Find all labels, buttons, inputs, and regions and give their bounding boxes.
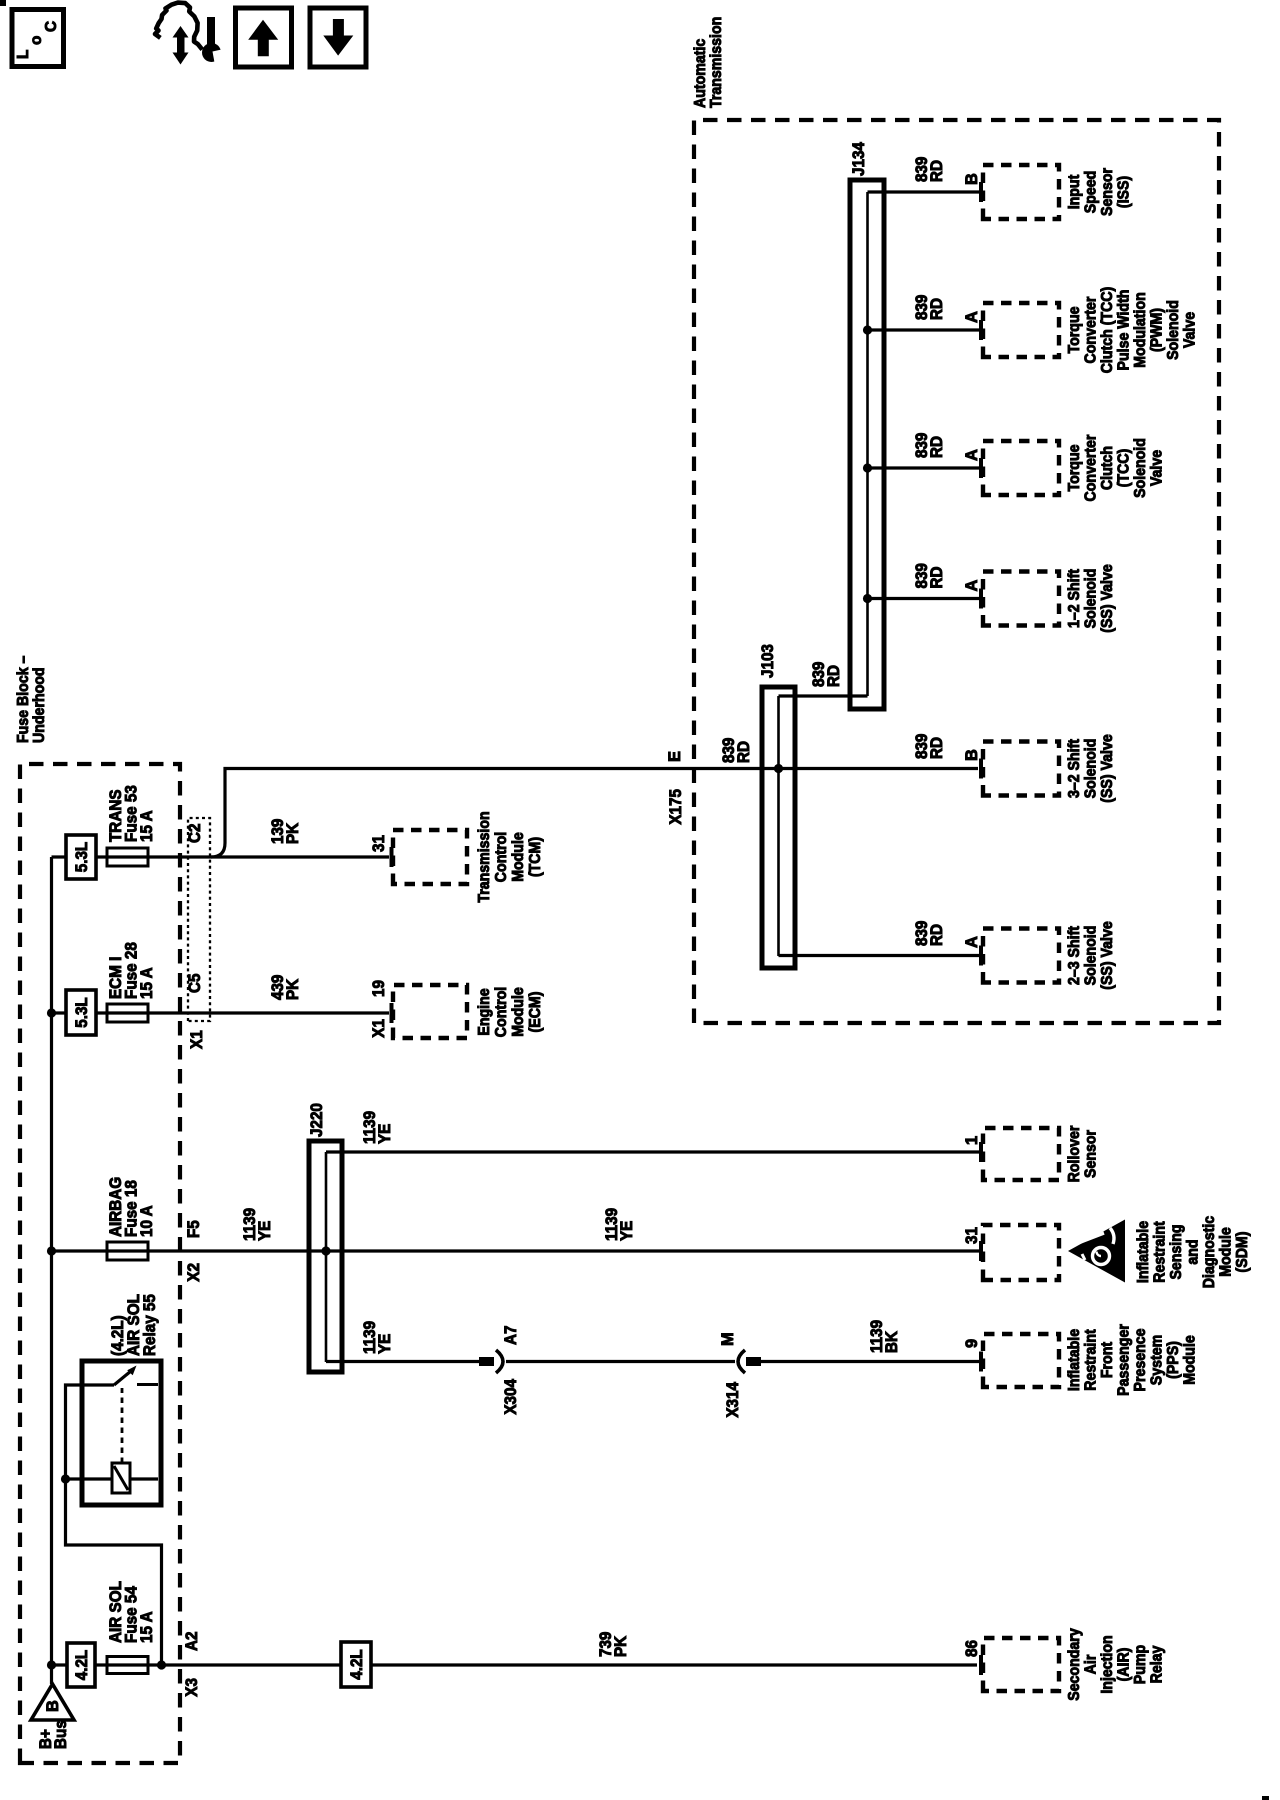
pin M label (X314) — [719, 1332, 737, 1346]
svg-text:Solenoid: Solenoid — [1132, 438, 1149, 498]
wire label 839 RD (TCC solenoid valve) — [913, 433, 946, 458]
LOC hotspot icon — [12, 10, 64, 67]
node J220 main splice — [321, 1246, 330, 1255]
svg-text:A2: A2 — [183, 1632, 201, 1652]
svg-text:RD: RD — [928, 737, 946, 759]
svg-text:Presence: Presence — [1132, 1328, 1149, 1391]
module PPS dashed box — [983, 1334, 1059, 1387]
pin tick rollover 1 — [979, 1142, 983, 1162]
node AIR SOL fuse output — [157, 1660, 166, 1669]
wire label 839 RD (TCC PWM solenoid valve) — [913, 295, 946, 320]
pin F5 label — [185, 1220, 203, 1238]
svg-text:(AIR): (AIR) — [1116, 1648, 1133, 1682]
svg-text:Pump: Pump — [1132, 1645, 1149, 1684]
svg-text:A7: A7 — [502, 1326, 520, 1346]
svg-text:(SS) Valve: (SS) Valve — [1099, 564, 1116, 633]
svg-text:Bus: Bus — [52, 1720, 70, 1749]
svg-text:Underhood: Underhood — [31, 667, 48, 743]
svg-text:X304: X304 — [502, 1378, 520, 1414]
pin tick TCM 31 — [390, 847, 394, 867]
relay label — [109, 1294, 159, 1356]
automatic transmission dashed box — [694, 120, 1219, 1023]
svg-text:Input: Input — [1066, 175, 1083, 210]
inline connector X304 — [479, 1350, 503, 1373]
pin C5 label — [186, 974, 204, 994]
pin A label (TCC PWM solenoid valve) — [963, 311, 981, 323]
pin 31 label (TCM) — [370, 835, 388, 852]
svg-text:C2: C2 — [186, 824, 204, 844]
svg-text:YE: YE — [376, 1124, 394, 1144]
wire label 839 RD (2-3 shift feed) — [913, 921, 946, 946]
scroll down button (arrow) — [310, 8, 366, 67]
module rollover sensor dashed box — [983, 1128, 1059, 1180]
module 2-3 shift solenoid dashed box — [983, 929, 1059, 983]
svg-text:X314: X314 — [724, 1381, 742, 1417]
pin A label (TCC solenoid valve) — [963, 449, 981, 461]
svg-text:15 A: 15 A — [138, 1611, 156, 1643]
pin 9 label (PPS) — [963, 1339, 981, 1348]
svg-text:Module: Module — [1182, 1335, 1199, 1385]
svg-text:(SS) Valve: (SS) Valve — [1099, 921, 1116, 990]
wire label 839 RD (J103 to J134) — [810, 662, 843, 687]
inline connector X314 — [738, 1350, 761, 1373]
svg-text:Secondary: Secondary — [1066, 1628, 1083, 1701]
pin E label (X175) — [666, 751, 684, 762]
svg-text:(TCC): (TCC) — [1116, 449, 1133, 488]
node bus to AIR SOL fuse — [47, 1660, 56, 1669]
svg-text:(ECM): (ECM) — [527, 992, 544, 1033]
module ISS input speed sensor dashed box — [983, 165, 1059, 219]
wire 839 RD branch from C2 to X175 — [211, 769, 978, 858]
svg-text:Inflatable: Inflatable — [1135, 1220, 1152, 1283]
pin 86 label (AIR pump relay) — [963, 1640, 981, 1657]
node J134 to 1-2 shift — [863, 594, 872, 603]
wire X304 to X314 1139 YE — [506, 1360, 735, 1363]
svg-text:Control: Control — [493, 987, 510, 1037]
svg-text:PK: PK — [612, 1636, 630, 1657]
svg-text:YE: YE — [256, 1221, 274, 1241]
svg-text:Fuse Block –: Fuse Block – — [15, 655, 32, 743]
module 1-2 shift solenoid valve label — [1066, 564, 1116, 633]
svg-text:RD: RD — [928, 436, 946, 458]
svg-text:Modulation: Modulation — [1132, 292, 1149, 368]
splice pack J220 label — [308, 1103, 326, 1137]
wire bus to AIR pump relay via AIR SOL fuse — [52, 1663, 978, 1666]
pin tick TCC solenoid valve — [979, 458, 983, 478]
connector X3 label — [183, 1678, 201, 1697]
wire label 839 RD (ISS input speed sensor) — [913, 157, 946, 182]
splice pack J103 label — [759, 644, 777, 678]
svg-text:Automatic: Automatic — [692, 38, 709, 108]
fuse block underhood dashed box — [20, 764, 180, 1763]
module TCM dashed box — [393, 830, 467, 884]
svg-text:M: M — [719, 1332, 737, 1346]
pin tick 2-3 shift solenoid — [979, 946, 983, 966]
svg-text:31: 31 — [963, 1227, 981, 1244]
svg-text:Clutch (TCC): Clutch (TCC) — [1099, 287, 1116, 374]
svg-text:(ISS): (ISS) — [1116, 176, 1133, 208]
svg-text:E: E — [666, 751, 684, 762]
svg-text:A: A — [963, 580, 981, 592]
splice pack J103 — [762, 687, 795, 968]
node relay coil feed — [61, 1474, 70, 1483]
pin tick 1-2 shift solenoid valve — [979, 589, 983, 609]
connector X175 label — [667, 789, 685, 825]
wire J220 to X304 1139 YE — [326, 1360, 479, 1363]
4.2L tag (AIR pump wire) — [341, 1642, 371, 1687]
wire label 839 RD (3-2 shift feed) — [913, 734, 946, 759]
svg-text:RD: RD — [825, 665, 843, 687]
svg-text:Pulse Width: Pulse Width — [1116, 290, 1133, 371]
connector X304 label — [502, 1378, 520, 1414]
svg-text:X3: X3 — [183, 1678, 201, 1697]
fuse AIRBAG Fuse 18 — [107, 1242, 148, 1260]
svg-text:Solenoid: Solenoid — [1083, 569, 1100, 629]
relay AIR SOL Relay 55 box — [82, 1361, 161, 1505]
pin A label (2-3 shift) — [963, 936, 981, 948]
node bus to AIRBAG fuse — [47, 1246, 56, 1255]
svg-text:J220: J220 — [308, 1103, 326, 1137]
module 1-2 shift solenoid valve dashed box — [983, 572, 1059, 626]
svg-text:Torque: Torque — [1066, 444, 1083, 491]
wire AIR SOL fuse to relay feed — [66, 1385, 162, 1665]
node J103 main splice — [774, 764, 783, 773]
pin B label (ISS input speed sensor) — [963, 173, 981, 185]
svg-text:Module: Module — [510, 832, 527, 882]
node J134 to TCC — [863, 463, 872, 472]
module 3-2 shift solenoid label — [1066, 734, 1116, 803]
B+ bus label — [37, 1720, 70, 1749]
wire label 139 PK — [269, 819, 302, 844]
svg-text:Solenoid: Solenoid — [1165, 300, 1182, 360]
svg-text:RD: RD — [928, 298, 946, 320]
connector X2 label — [185, 1263, 203, 1282]
svg-text:PK: PK — [284, 979, 302, 1000]
pan/tool hotspot icon — [155, 3, 224, 65]
pin A label (1-2 shift solenoid valve) — [963, 580, 981, 592]
wire J134 to TCC PWM solenoid valve 839 RD — [868, 328, 980, 331]
svg-text:Module: Module — [1218, 1227, 1235, 1277]
node bus to ECM fuse — [47, 1008, 56, 1017]
svg-text:Diagnostic: Diagnostic — [1201, 1215, 1218, 1288]
svg-text:YE: YE — [618, 1221, 636, 1241]
splice pack J134 — [850, 180, 884, 709]
page corner mark top — [0, 0, 6, 6]
svg-text:L: L — [15, 50, 32, 59]
wire label 1139 YE (above J220) — [241, 1208, 274, 1241]
module SDM dashed box — [983, 1225, 1059, 1280]
svg-text:Clutch: Clutch — [1099, 446, 1116, 490]
svg-text:A: A — [963, 311, 981, 323]
svg-text:X175: X175 — [667, 789, 685, 825]
scroll up button (arrow) — [236, 8, 292, 67]
svg-text:Converter: Converter — [1083, 435, 1100, 502]
wire bus to ECM via ECM I fuse — [52, 1011, 390, 1014]
module TCC PWM solenoid valve dashed box — [983, 303, 1059, 357]
wire label 739 PK — [597, 1632, 630, 1657]
svg-text:PK: PK — [284, 823, 302, 844]
node J134 to TCC PWM — [863, 325, 872, 334]
svg-text:C: C — [43, 21, 60, 32]
svg-text:RD: RD — [928, 924, 946, 946]
svg-text:2–3 Shift: 2–3 Shift — [1066, 926, 1083, 985]
fuse block label — [15, 655, 48, 743]
connector X314 label — [724, 1381, 742, 1417]
wire J134 to ISS input speed sensor 839 RD — [868, 190, 980, 193]
wire J103 to 2-3 shift 839 RD — [779, 954, 980, 957]
svg-text:15 A: 15 A — [138, 967, 156, 999]
svg-text:Control: Control — [493, 832, 510, 882]
svg-text:Inflatable: Inflatable — [1066, 1328, 1083, 1391]
module SDM label — [1135, 1215, 1251, 1288]
svg-text:and: and — [1185, 1239, 1202, 1264]
svg-text:(TCM): (TCM) — [527, 837, 544, 877]
svg-text:19: 19 — [370, 980, 388, 997]
svg-text:Restraint: Restraint — [1152, 1221, 1169, 1282]
module rollover sensor label — [1066, 1126, 1100, 1183]
svg-text:3–2 Shift: 3–2 Shift — [1066, 739, 1083, 798]
svg-text:B: B — [963, 749, 981, 761]
4.2L tag (AIR SOL) — [67, 1643, 95, 1687]
pin 19 label (ECM) — [370, 980, 388, 997]
pin tick SDM 31 — [979, 1241, 983, 1261]
svg-text:(SDM): (SDM) — [1234, 1232, 1251, 1273]
module ECM dashed box — [393, 985, 467, 1038]
relay actuator dashed link — [121, 1388, 124, 1463]
module PPS label — [1066, 1324, 1199, 1396]
module Secondary AIR pump relay dashed box — [983, 1638, 1059, 1691]
svg-text:9: 9 — [963, 1339, 981, 1348]
svg-text:System: System — [1149, 1335, 1166, 1385]
svg-text:RD: RD — [928, 566, 946, 588]
svg-text:Solenoid: Solenoid — [1083, 739, 1100, 799]
relay coil — [112, 1463, 130, 1493]
fuse TRANS Fuse 53 — [107, 848, 148, 866]
wire bus to TCM via TRANS fuse — [52, 855, 390, 858]
wire B+ bus — [50, 857, 53, 1684]
svg-text:Passenger: Passenger — [1116, 1324, 1133, 1396]
svg-text:Converter: Converter — [1083, 297, 1100, 364]
svg-text:5.3L: 5.3L — [73, 997, 91, 1028]
wire label 439 PK — [269, 975, 302, 1000]
wire label 839 RD (trunk above J103) — [720, 738, 753, 763]
svg-text:Transmission: Transmission — [476, 811, 493, 902]
5.3L tag (ECM) — [66, 990, 96, 1035]
svg-text:31: 31 — [370, 835, 388, 852]
svg-text:4.2L: 4.2L — [73, 1650, 91, 1681]
pin tick AIR pump relay 86 — [979, 1655, 983, 1675]
module Secondary AIR pump relay label — [1066, 1628, 1166, 1701]
svg-text:1–2 Shift: 1–2 Shift — [1066, 569, 1083, 628]
svg-text:Torque: Torque — [1066, 306, 1083, 353]
svg-text:1: 1 — [963, 1136, 981, 1145]
svg-text:A: A — [963, 449, 981, 461]
connector X1 label — [188, 1030, 206, 1049]
pin 1 label (rollover) — [963, 1136, 981, 1145]
module TCC solenoid valve dashed box — [983, 441, 1059, 495]
svg-text:(SS) Valve: (SS) Valve — [1099, 734, 1116, 803]
svg-text:Valve: Valve — [1149, 449, 1166, 486]
svg-text:A: A — [963, 936, 981, 948]
svg-text:J134: J134 — [850, 141, 868, 176]
svg-text:YE: YE — [376, 1334, 394, 1354]
wire relay coil feed — [66, 1477, 159, 1480]
fuse AIRBAG label — [107, 1177, 156, 1237]
svg-text:10 A: 10 A — [138, 1205, 156, 1237]
fuse ECM I label — [107, 942, 156, 999]
module TCC solenoid valve label — [1066, 435, 1166, 502]
pin C2 label — [186, 824, 204, 844]
svg-text:Valve: Valve — [1182, 311, 1199, 348]
svg-text:Engine: Engine — [476, 988, 493, 1036]
module TCM label — [476, 811, 544, 902]
svg-text:5.3L: 5.3L — [73, 842, 91, 873]
splice pack J220 — [309, 1141, 342, 1372]
svg-text:o: o — [28, 36, 45, 45]
fuse TRANS label — [107, 785, 156, 842]
connector X1 fuse block dotted box — [188, 818, 210, 1021]
wire label 1139 YE (rollover branch) — [361, 1111, 394, 1144]
module 3-2 shift solenoid dashed box — [983, 742, 1059, 796]
pin tick TCC PWM solenoid valve — [979, 320, 983, 340]
svg-text:86: 86 — [963, 1640, 981, 1657]
svg-text:Sensing: Sensing — [1168, 1224, 1185, 1279]
wire J134 to 1-2 shift solenoid valve 839 RD — [868, 597, 980, 600]
pin 31 label (SDM) — [963, 1227, 981, 1244]
wire bus to SDM via AIRBAG fuse — [52, 1249, 980, 1252]
connector X1 label (ECM) — [370, 1019, 388, 1038]
module ECM label — [476, 987, 544, 1037]
svg-text:J103: J103 — [759, 644, 777, 678]
module ISS input speed sensor label — [1066, 168, 1133, 216]
svg-text:X1: X1 — [188, 1030, 206, 1049]
5.3L tag (TRANS) — [66, 835, 96, 879]
svg-text:Speed: Speed — [1083, 171, 1100, 214]
svg-text:Sensor: Sensor — [1083, 1130, 1100, 1178]
svg-text:BK: BK — [883, 1331, 901, 1353]
svg-text:X1: X1 — [370, 1019, 388, 1038]
wire label 1139 YE (PPS branch) — [361, 1321, 394, 1354]
pin tick ISS input speed sensor — [979, 182, 983, 202]
svg-text:Module: Module — [510, 987, 527, 1037]
svg-text:B: B — [44, 1700, 62, 1712]
svg-text:F5: F5 — [185, 1220, 203, 1238]
wire J134 to TCC solenoid valve 839 RD — [868, 466, 980, 469]
pin A7 label (X304) — [502, 1326, 520, 1346]
svg-text:B: B — [963, 173, 981, 185]
svg-text:Solenoid: Solenoid — [1083, 926, 1100, 986]
svg-text:Sensor: Sensor — [1099, 168, 1116, 216]
relay switch — [114, 1366, 158, 1386]
svg-text:Front: Front — [1099, 1342, 1116, 1378]
SIR caution triangle — [1068, 1220, 1125, 1283]
fuse AIR SOL label — [107, 1581, 156, 1643]
svg-text:Air: Air — [1083, 1655, 1100, 1675]
pin B label (3-2 shift) — [963, 749, 981, 761]
wire label 839 RD (1-2 shift solenoid valve) — [913, 563, 946, 588]
wire X314 to PPS 1139 BK — [760, 1360, 979, 1363]
svg-text:15 A: 15 A — [138, 810, 156, 842]
B+ bus feed triangle — [31, 1684, 74, 1720]
svg-text:RD: RD — [735, 741, 753, 763]
svg-text:Transmission: Transmission — [708, 17, 725, 108]
svg-text:(PPS): (PPS) — [1165, 1341, 1182, 1379]
svg-text:Relay: Relay — [1149, 1645, 1166, 1683]
module TCC PWM solenoid valve label — [1066, 287, 1199, 374]
svg-text:(PWM): (PWM) — [1149, 308, 1166, 352]
wire J220 to rollover sensor 1139 YE — [326, 1150, 979, 1153]
svg-text:C5: C5 — [186, 974, 204, 994]
pin tick PPS 9 — [979, 1352, 983, 1372]
svg-text:Relay 55: Relay 55 — [141, 1294, 159, 1356]
fuse AIR SOL Fuse 54 — [107, 1657, 148, 1674]
svg-text:X2: X2 — [185, 1263, 203, 1282]
wire label 1139 BK — [868, 1320, 901, 1353]
pin tick ECM 19 — [390, 1003, 394, 1023]
splice pack J134 label — [850, 141, 868, 176]
page corner mark bottom — [1262, 1796, 1269, 1800]
svg-text:Rollover: Rollover — [1066, 1126, 1083, 1183]
svg-text:Injection: Injection — [1099, 1635, 1116, 1693]
pin A2 label — [183, 1632, 201, 1652]
svg-text:RD: RD — [928, 160, 946, 182]
fuse ECM I Fuse 28 — [107, 1004, 148, 1022]
pin tick 3-2 shift solenoid — [979, 759, 983, 779]
svg-text:4.2L: 4.2L — [348, 1649, 366, 1680]
wire J103 to J134 839 RD — [779, 694, 868, 697]
automatic transmission label — [692, 17, 725, 108]
wire label 1139 YE (below J220, SDM feed) — [603, 1208, 636, 1241]
svg-text:Restraint: Restraint — [1083, 1329, 1100, 1390]
module 2-3 shift solenoid label — [1066, 921, 1116, 990]
